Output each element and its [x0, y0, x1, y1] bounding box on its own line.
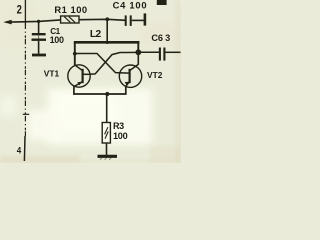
paper background: [0, 0, 181, 163]
block boundary chain line (left, label 2): [24, 0, 26, 26]
svg-text:100: 100: [50, 35, 64, 45]
wire L2 left end down to VT1 collector: [74, 42, 76, 65]
resistor R1: [61, 16, 79, 23]
wire VT1 emitter down: [74, 86, 106, 94]
node VT2 collector / C6 (big junction): [135, 49, 141, 55]
svg-text:100: 100: [113, 131, 128, 141]
resistor R3: [102, 123, 110, 144]
node emitter bus / R3: [105, 92, 109, 96]
transistor VT2: [119, 65, 141, 87]
capacitor C4: [125, 15, 127, 26]
svg-text:4: 4: [17, 145, 22, 156]
wire C4 right lead: [132, 19, 144, 21]
white-out blobs (scan correction): [48, 89, 152, 144]
wire C6 to right edge: [165, 51, 180, 53]
wire L2 center tap: [106, 19, 108, 42]
wire top rail right: [79, 19, 125, 20]
wire cross-coupling VT1 collector to VT2 base: [75, 54, 130, 74]
terminal bar below C1: [32, 54, 46, 57]
svg-text:C6 3: C6 3: [151, 33, 170, 43]
node: rail / C1 junction: [37, 20, 40, 23]
wire C1 lead: [38, 21, 40, 33]
terminal bar at top edge: [157, 0, 167, 5]
node on VT1 collector branch: [73, 52, 77, 56]
svg-text:R3: R3: [113, 121, 124, 131]
svg-text:C4 100: C4 100: [113, 0, 148, 11]
svg-text:VT2: VT2: [147, 70, 163, 80]
chain line crossing tick: [23, 113, 29, 115]
capacitor C1: [32, 33, 46, 35]
wire L2 right end down: [137, 42, 139, 50]
capacitor C6: [138, 51, 159, 53]
node: rail / L2 tap / C4 junction: [105, 17, 109, 21]
wire cross-coupling VT1 base to VT2 collector node: [90, 52, 139, 74]
svg-text:R1 100: R1 100: [54, 4, 87, 15]
ground: [98, 155, 118, 158]
wire VT2 emitter down / emitter bus: [106, 86, 126, 94]
wire below C1: [38, 41, 40, 54]
wire top rail left: [11, 20, 61, 22]
svg-text:L2: L2: [90, 29, 102, 40]
svg-text:VT1: VT1: [44, 69, 60, 79]
inductor L2 (thick line): [74, 41, 140, 44]
wire down to R3: [106, 94, 108, 123]
wire R3 to ground: [106, 143, 108, 155]
output arrow (left end of top rail): [3, 20, 12, 25]
terminal bar right of C4: [144, 13, 147, 25]
svg-text:2: 2: [17, 4, 22, 17]
transistor VT1: [68, 65, 90, 87]
